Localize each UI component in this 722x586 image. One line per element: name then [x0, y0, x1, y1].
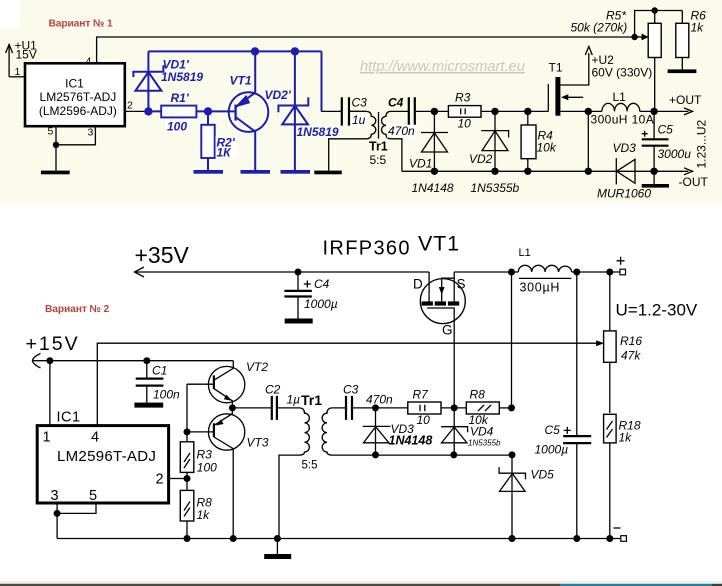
ground bottom rail [276, 539, 278, 555]
ground R2' [194, 170, 224, 174]
wire blue rail top [148, 51, 321, 64]
svg-text:1000µ: 1000µ [535, 443, 569, 457]
svg-text:3000u: 3000u [658, 147, 692, 161]
ground C1 [134, 403, 163, 408]
node C4-VD1 junction [431, 108, 438, 115]
svg-text:10k: 10k [537, 141, 557, 155]
ground Tr1 primary [314, 171, 342, 175]
svg-text:LM2596T-ADJ: LM2596T-ADJ [57, 448, 156, 465]
svg-text:VD2: VD2 [469, 152, 493, 166]
svg-text:Tr1: Tr1 [369, 140, 388, 154]
svg-text:4: 4 [91, 429, 99, 445]
svg-text:2: 2 [127, 100, 133, 112]
svg-text:IC1: IC1 [57, 410, 81, 426]
node rail dots [431, 168, 438, 175]
capacitor C3 470n [346, 396, 352, 420]
node pin5-3 junction [53, 142, 59, 148]
svg-text:3: 3 [51, 488, 59, 504]
wire T1 source [560, 110, 602, 112]
wire pin2 [125, 110, 149, 112]
svg-text:VT3: VT3 [247, 435, 269, 449]
svg-text:LM2576T-ADJ: LM2576T-ADJ [40, 90, 117, 104]
capacitor C5 3000u [653, 111, 655, 171]
wire pin2 [169, 478, 187, 480]
node pin1 junction [46, 357, 53, 364]
node + terminal [620, 269, 626, 275]
transistor VT2 [187, 361, 245, 408]
node VT1 collector on blue rail [251, 47, 259, 55]
svg-text:3: 3 [88, 127, 94, 139]
resistor R8 10k [466, 402, 499, 414]
svg-text:VD4: VD4 [470, 425, 494, 439]
node R8 right junction [508, 404, 515, 411]
svg-text:100n: 100n [153, 388, 180, 402]
wire bottom rail v2 [57, 538, 621, 540]
svg-text:C5: C5 [545, 423, 561, 437]
svg-text:1N4148: 1N4148 [412, 181, 454, 195]
node R3-VD2 junction [491, 108, 498, 115]
node R7-R8-VD4-gate junction [451, 404, 458, 411]
resistor R2' 1K [207, 111, 209, 170]
svg-text:1N5819: 1N5819 [297, 125, 339, 139]
capacitor C4 470n [409, 97, 415, 125]
svg-text:R3: R3 [455, 91, 471, 105]
diode VD4 1N5355b zener [453, 408, 455, 455]
svg-text:1k: 1k [691, 21, 705, 35]
transformer Tr1 core [378, 112, 380, 139]
resistor R8 1k [186, 472, 188, 538]
diode VD3 MUR1060 [615, 158, 617, 184]
node - terminal [621, 536, 627, 542]
node R16 wiper arrow [596, 340, 604, 346]
resistor R3 100 [186, 432, 188, 442]
node +OUT arrow [684, 108, 693, 115]
svg-text:VD5: VD5 [531, 467, 555, 481]
node -OUT arrow [684, 168, 693, 175]
resistor R4 10k [527, 111, 529, 171]
capacitor C5 1000µ [576, 272, 578, 539]
svg-text:R7: R7 [413, 388, 430, 402]
svg-text:VD2': VD2' [265, 88, 292, 102]
node emitter junction [229, 404, 236, 411]
wire pin5 pin3 to ground [56, 126, 95, 170]
capacitor C2 1µ [232, 407, 271, 409]
wire source rail [454, 271, 518, 273]
svg-text:Tr1: Tr1 [301, 392, 322, 408]
node R16 top junction [606, 269, 613, 276]
svg-text:300uH 10A: 300uH 10A [591, 113, 655, 127]
diode VD3 1N4148 [375, 408, 377, 455]
svg-text:470n: 470n [388, 124, 415, 138]
svg-text:+OUT: +OUT [669, 93, 702, 107]
node source junction [585, 108, 592, 115]
svg-text:-OUT: -OUT [679, 175, 709, 189]
node R4 top junction [524, 108, 531, 115]
node C1 junction [143, 357, 150, 364]
svg-text:R16: R16 [620, 334, 642, 348]
svg-text:C2: C2 [265, 383, 281, 397]
svg-text:1000µ: 1000µ [304, 297, 338, 311]
wire mid rail v2 [450, 451, 457, 458]
svg-text:1: 1 [15, 66, 21, 78]
node R1'-R2'-base junction [204, 107, 212, 115]
ground IC1 [41, 171, 70, 175]
node C5 top junction [573, 269, 580, 276]
svg-text:1u: 1u [352, 113, 366, 127]
transformer Tr1 primary winding [277, 408, 309, 539]
svg-text:100: 100 [197, 460, 217, 474]
svg-text:470n: 470n [366, 393, 393, 407]
svg-text:1N5355b: 1N5355b [471, 181, 520, 195]
node +U2 arrow [585, 47, 592, 56]
svg-text:Вариант № 2: Вариант № 2 [45, 304, 109, 315]
svg-text:T1: T1 [549, 61, 563, 75]
diode VD1' 1N5819 schottky [133, 64, 163, 111]
svg-text:C4: C4 [314, 277, 330, 291]
svg-text:47k: 47k [621, 349, 641, 363]
svg-text:VD3: VD3 [613, 141, 637, 155]
resistor R16 47k pot [609, 272, 611, 413]
resistor R1' 100 [148, 110, 208, 112]
capacitor C1 100n [146, 361, 148, 403]
ground VT1 [241, 170, 271, 174]
svg-text:VT1: VT1 [230, 74, 252, 88]
SECTION-BOTTOMBAND [0, 581, 722, 584]
node C3-VD3-R7 junction [372, 404, 379, 411]
transistor VT1 mosfet IRFP360 [420, 279, 465, 324]
svg-text:300µH: 300µH [520, 281, 561, 295]
diode VD1 1N4148 [433, 111, 435, 171]
svg-text:R3: R3 [197, 447, 213, 461]
transistor VT1 [229, 51, 269, 170]
wire bottom rail v1 [402, 170, 689, 172]
svg-text:100: 100 [167, 120, 187, 134]
wire feedback rail pin4 [97, 343, 599, 425]
transformer Tr1 secondary winding [322, 408, 512, 455]
svg-text:1k: 1k [197, 508, 211, 522]
svg-text:(LM2596-ADJ): (LM2596-ADJ) [39, 104, 117, 118]
inductor L1 300µH [518, 265, 572, 272]
svg-text:S: S [457, 277, 466, 292]
resistor R18 1k [604, 414, 617, 443]
svg-text:5: 5 [89, 488, 97, 504]
svg-text:1.23...U2: 1.23...U2 [695, 119, 709, 168]
wire pin4 feedback rail [97, 37, 635, 63]
node source-L1 junction [508, 269, 515, 276]
ground output mark [653, 171, 655, 184]
svg-text:10: 10 [458, 117, 472, 131]
svg-text:+15V: +15V [26, 333, 80, 355]
IC IC1 LM2576T-ADJ regulator [25, 63, 125, 126]
ground C4 [285, 319, 313, 324]
svg-text:1k: 1k [619, 431, 633, 445]
svg-text:60V (330V): 60V (330V) [592, 65, 653, 79]
svg-text:1N4148: 1N4148 [389, 434, 433, 448]
svg-text:1: 1 [43, 429, 51, 445]
svg-text:C3: C3 [343, 383, 359, 397]
svg-text:1N5819: 1N5819 [161, 70, 203, 84]
svg-text:C3: C3 [352, 96, 368, 110]
transistor VT3 [208, 408, 244, 539]
svg-text:IRFP360: IRFP360 [323, 238, 411, 260]
svg-text:D: D [413, 277, 423, 292]
svg-text:+35V: +35V [135, 242, 190, 268]
svg-text:IC1: IC1 [65, 76, 84, 90]
svg-text:VD1: VD1 [409, 157, 432, 171]
diode VD2' 1N5819 schottky [278, 51, 308, 170]
resistor R7 10 [408, 402, 441, 414]
svg-text:15V: 15V [16, 48, 37, 62]
node +U1 supply arrow [6, 45, 13, 77]
wire pin1 [49, 361, 51, 426]
node +OUT junction [650, 108, 657, 115]
svg-text:1К: 1К [217, 145, 233, 159]
ground VD2' [281, 170, 311, 174]
svg-text:VT1: VT1 [418, 232, 460, 256]
svg-text:5: 5 [48, 126, 54, 138]
capacitor C4 1000u [297, 272, 299, 319]
svg-text:VT2: VT2 [246, 360, 268, 374]
svg-text:2: 2 [156, 472, 164, 488]
svg-text:4: 4 [86, 56, 92, 68]
svg-text:G: G [442, 323, 453, 338]
node pin2 junction [144, 107, 152, 115]
svg-text:http://www.microsmart.eu: http://www.microsmart.eu [360, 59, 525, 75]
svg-text:50k (270k): 50k (270k) [571, 21, 628, 35]
svg-text:C5: C5 [658, 123, 674, 137]
svg-text:MUR1060: MUR1060 [597, 187, 651, 201]
wire pin1 to IC [9, 76, 25, 78]
svg-text:L1: L1 [519, 247, 531, 259]
svg-text:R8: R8 [470, 388, 486, 402]
svg-text:U=1.2-30V: U=1.2-30V [616, 301, 698, 320]
svg-text:5:5: 5:5 [370, 153, 387, 167]
resistor R3 10 [448, 106, 481, 118]
wire blue rail to C3 [321, 51, 323, 111]
node VD2' on blue rail [291, 47, 299, 55]
svg-text:L1: L1 [613, 90, 627, 104]
svg-text:5:5: 5:5 [302, 460, 318, 472]
resistor R6 1k [681, 11, 683, 70]
capacitor C3 1u [342, 97, 349, 125]
diode VD5 zener [511, 455, 513, 539]
transformer Tr1 secondary [382, 111, 409, 171]
wire VT2 base down to R3 [186, 384, 188, 432]
wire pin3 pin5 [57, 503, 96, 539]
node C4 junction [295, 269, 302, 276]
svg-text:C4: C4 [388, 95, 404, 109]
ground R6 [668, 69, 697, 73]
svg-text:C1: C1 [152, 364, 167, 378]
svg-text:10: 10 [417, 413, 431, 427]
node base junction [184, 428, 191, 435]
svg-text:1µ: 1µ [287, 393, 301, 407]
diode VD2 1N5355b zener [494, 111, 496, 171]
transformer Tr1 primary [329, 111, 376, 170]
resistor R5* 50k pot [631, 34, 637, 40]
svg-text:Вариант № 1: Вариант № 1 [49, 18, 113, 29]
svg-text:R1': R1' [171, 91, 190, 105]
inductor L1 300uH [602, 103, 640, 111]
svg-text:1N5355b: 1N5355b [468, 439, 501, 448]
